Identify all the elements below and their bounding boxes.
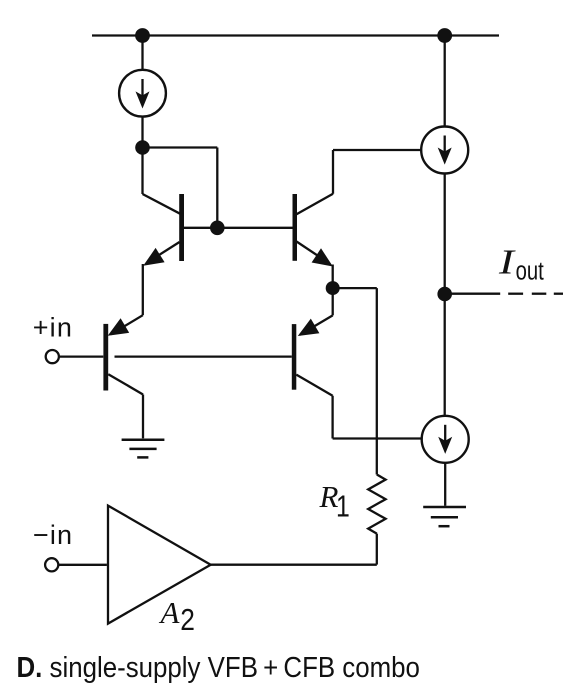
svg-text:+in: +in xyxy=(33,313,73,343)
svg-text:A: A xyxy=(159,595,181,630)
svg-text:1: 1 xyxy=(336,489,350,523)
svg-text:2: 2 xyxy=(180,603,195,637)
svg-text:D. single-supply VFB + CFB com: D. single-supply VFB + CFB combo xyxy=(17,651,420,684)
svg-text:out: out xyxy=(516,256,545,285)
svg-text:−in: −in xyxy=(33,520,73,550)
svg-text:I: I xyxy=(498,242,516,281)
